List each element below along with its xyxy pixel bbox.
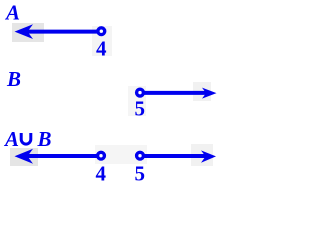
svg-text:4: 4 <box>96 37 107 61</box>
svg-text:A: A <box>3 127 19 151</box>
svg-text:5: 5 <box>135 97 146 121</box>
svg-text:4: 4 <box>96 162 107 186</box>
svg-text:5: 5 <box>135 162 146 186</box>
svg-text:B: B <box>6 67 21 91</box>
svg-text:B: B <box>37 127 52 151</box>
svg-text:A: A <box>4 1 20 25</box>
